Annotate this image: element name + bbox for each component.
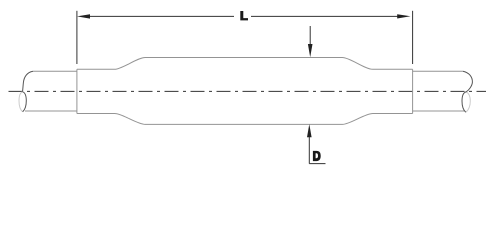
break symbol right (hidden ellipse back) bbox=[466, 92, 471, 112]
break symbol left (hidden ellipse back) bbox=[19, 92, 23, 112]
wire cable-right-bottom bbox=[413, 110, 465, 112]
centerline bbox=[9, 90, 487, 92]
extension line right bbox=[412, 11, 414, 64]
label D bbox=[313, 151, 321, 161]
break symbol left (S-curve) bbox=[23, 71, 34, 112]
wire cable-left-bottom bbox=[25, 110, 77, 112]
wire cable-left-top bbox=[33, 70, 77, 72]
arrowhead L right bbox=[397, 14, 410, 18]
leader arrow top (points down at sleeve) bbox=[309, 26, 311, 45]
label L bbox=[240, 11, 248, 20]
sleeve outline bbox=[77, 58, 413, 125]
extension line left bbox=[76, 11, 78, 64]
dimension line L bbox=[89, 15, 399, 17]
break symbol right (S-curve) bbox=[462, 71, 472, 112]
arrowhead L left bbox=[77, 14, 90, 18]
wire cable-right-top bbox=[413, 70, 463, 72]
leader arrow bottom (points up at sleeve) bbox=[309, 136, 325, 164]
